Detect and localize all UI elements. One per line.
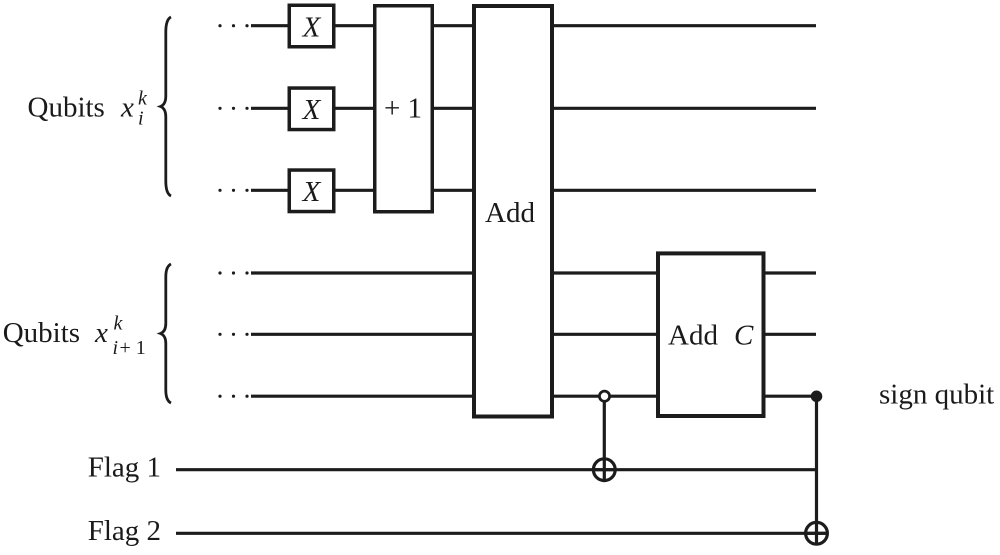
X gate on wire 1: [289, 5, 334, 47]
ellipsis dots wire 2: [218, 107, 248, 110]
svg-text:Flag 2: Flag 2: [88, 515, 161, 547]
svg-text:Qubits: Qubits: [3, 317, 80, 349]
wire qubit x_i+1^k line 3 (sign qubit): [251, 395, 817, 398]
svg-text:Add: Add: [485, 197, 535, 229]
svg-text:Add: Add: [668, 320, 718, 352]
svg-text:k: k: [114, 313, 124, 335]
control line from open control to Flag 1 target: [603, 396, 606, 481]
label Qubits x_i+1^k: [3, 313, 146, 360]
open-circle control on wire 6: [599, 391, 609, 401]
ellipsis dots wire 6: [218, 395, 248, 398]
svg-text:X: X: [302, 12, 322, 44]
wire qubit x_i^k line 1: [251, 24, 816, 27]
svg-text:i: i: [138, 108, 144, 130]
svg-text:i: i: [113, 337, 119, 359]
wire Flag 1: [176, 468, 818, 471]
wire qubit x_i+1^k line 2: [251, 333, 816, 336]
Add C gate box: [658, 253, 764, 416]
+1 gate box: [375, 6, 433, 212]
control line from dot control to Flag 2 target: [815, 396, 818, 544]
brace for qubits x_i+1^k group: [161, 264, 172, 403]
svg-text:Flag 1: Flag 1: [88, 452, 161, 484]
ellipsis dots wire 3: [218, 189, 248, 192]
filled control dot on wire 6 (sign qubit junction): [811, 391, 823, 403]
svg-text:X: X: [302, 94, 322, 126]
label Qubits x_i^k: [28, 88, 149, 130]
svg-text:Qubits: Qubits: [28, 92, 105, 124]
Add gate box: [474, 6, 552, 417]
CNOT target on Flag 1: [593, 459, 615, 481]
wire Flag 2: [176, 532, 828, 535]
svg-text:x: x: [120, 92, 134, 124]
svg-text:sign qubit: sign qubit: [879, 379, 994, 411]
svg-text:x: x: [94, 317, 108, 349]
brace for qubits x_i^k group: [161, 17, 172, 196]
CNOT target on Flag 2: [806, 522, 828, 544]
X gate on wire 2: [289, 88, 334, 130]
ellipsis dots wire 4: [218, 271, 248, 274]
ellipsis dots wire 5: [218, 333, 248, 336]
svg-text:+ 1: + 1: [120, 337, 146, 359]
svg-text:+ 1: + 1: [384, 93, 422, 125]
svg-text:k: k: [138, 88, 148, 110]
wire qubit x_i^k line 3: [251, 189, 816, 192]
wire qubit x_i+1^k line 1: [251, 271, 816, 274]
wire qubit x_i^k line 2: [251, 107, 816, 110]
X gate on wire 3: [289, 170, 334, 212]
svg-text:C: C: [734, 320, 754, 352]
ellipsis dots wire 1: [218, 24, 248, 27]
svg-text:X: X: [302, 176, 322, 208]
